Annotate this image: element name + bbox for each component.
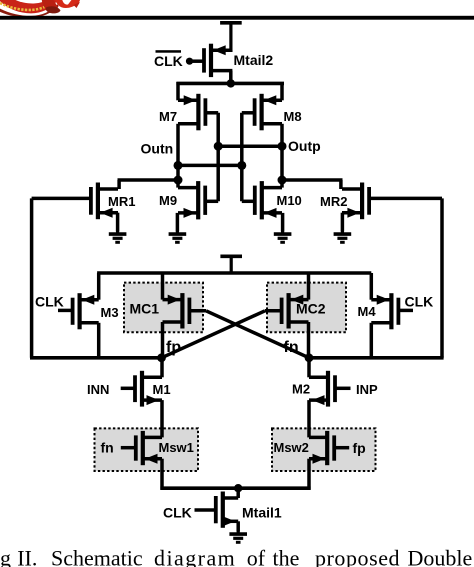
transistor M1 (NMOS input left) [121, 371, 162, 407]
transistor MR2 (NMOS reset right) [342, 183, 442, 220]
svg-text:II.: II. [17, 546, 37, 567]
overline of CLK [156, 50, 182, 53]
power VDD stub (top) [220, 23, 242, 52]
wire Msw1 source down to tail node [160, 459, 164, 490]
wire Mtail1 drain up [236, 488, 240, 498]
svg-text:INP: INP [356, 382, 378, 397]
wire Outp rail [280, 178, 342, 182]
svg-text:CLK: CLK [163, 505, 192, 521]
wire M8 source from rail [280, 82, 284, 100]
svg-text:CLK: CLK [35, 294, 64, 310]
node Outp at drain column [278, 176, 287, 185]
dashed box around MC2 [267, 283, 346, 333]
wire M7 source from rail [176, 82, 180, 100]
node upper cross right (Outp) [278, 142, 287, 151]
wire left outer (MR1 gate to fp rail) [30, 198, 34, 357]
wire MC2 source column from rail [307, 273, 311, 300]
svg-text:of: of [247, 546, 266, 567]
wire fn rail [309, 356, 444, 360]
wire Mtail1 source down to ground [236, 521, 240, 531]
wire common tail node rail [160, 486, 310, 490]
node lower cross left (Outn) [174, 161, 183, 170]
wire M1 source down to Msw1 [160, 400, 164, 437]
wire M10 drain from Outp [280, 180, 284, 188]
wire MC2 drain column to fn [307, 322, 311, 359]
svg-text:M3: M3 [101, 305, 119, 320]
svg-text:fp: fp [166, 339, 181, 356]
journal logo ribbon [0, 0, 82, 18]
svg-text:CLK: CLK [154, 53, 183, 69]
svg-text:Outp: Outp [288, 138, 321, 154]
svg-text:MC2: MC2 [296, 301, 326, 317]
svg-text:Mtail1: Mtail1 [242, 505, 282, 521]
wire MR2 drain up to Outp rail [339, 180, 343, 189]
node upper cross left [214, 142, 223, 151]
svg-text:proposed: proposed [315, 546, 400, 567]
svg-text:diagram: diagram [154, 546, 236, 567]
transistor M7 (PMOS latch left) [178, 94, 218, 131]
wire lower cross-couple (gates M8/M10 to Outn) [176, 164, 241, 168]
transistor Msw2 (NMOS switch right) [309, 431, 349, 465]
transistor M2 (NMOS input right) [309, 371, 351, 407]
node tail join [234, 484, 242, 492]
ground M9 ground [169, 232, 187, 243]
transistor MC1 (PMOS cross left) [163, 293, 207, 328]
wire M9 source down to ground [176, 213, 180, 232]
top border rule [0, 16, 474, 20]
svg-text:the: the [273, 546, 300, 567]
wire Mtail2 source to VDD [229, 50, 233, 52]
dashed box around Msw1 [95, 428, 199, 471]
ground M10 ground [274, 232, 292, 243]
svg-text:Msw2: Msw2 [274, 440, 309, 455]
svg-text:M2: M2 [292, 382, 310, 397]
wire M4 drain down to fn rail [370, 323, 374, 358]
svg-text:MR2: MR2 [320, 194, 347, 209]
node Outn at drain column [174, 176, 183, 185]
wire MC1 source column from rail [161, 273, 165, 300]
svg-text:MR1: MR1 [108, 194, 135, 209]
wire stage-1 source rail [176, 82, 284, 86]
wire M8 drain down to Outp [280, 124, 284, 182]
wire M9 drain from Outn [176, 180, 180, 188]
svg-text:g: g [0, 546, 11, 567]
wire MC2 gate diagonal to fp [162, 311, 266, 358]
wire fp down to M1 drain [160, 358, 164, 378]
wire fp rail [30, 356, 162, 360]
wire Msw2 source down to tail node [307, 459, 311, 490]
ground MR2 ground [334, 232, 352, 243]
wire M4 source to rail [370, 273, 374, 300]
transistor M3 (PMOS clk left) [58, 293, 99, 329]
wire M10 source down to ground [281, 213, 285, 232]
svg-text:M8: M8 [284, 109, 302, 124]
svg-text:INN: INN [87, 382, 109, 397]
transistor MC2 (PMOS cross right) [265, 293, 309, 328]
transistor MR1 (NMOS reset left) [32, 183, 118, 220]
dashed box around MC1 [124, 283, 203, 333]
wire MR1 source down to ground [116, 213, 120, 232]
wire Mtail2 drain to tail rail [229, 71, 233, 84]
transistor Mtail1 (NMOS tail) [195, 492, 239, 528]
svg-text:fp: fp [353, 440, 366, 456]
transistor Mtail2 (PMOS tail) [190, 44, 232, 77]
transistor M4 (PMOS clk right) [371, 293, 413, 329]
svg-text:fn: fn [101, 440, 114, 456]
wire MC1 gate diagonal to fn [206, 311, 309, 358]
node fn [305, 353, 314, 362]
wire M2 source down to Msw2 [307, 400, 311, 437]
wire M3 drain down to fp rail [97, 323, 101, 358]
wire M3 source to rail [97, 273, 101, 300]
svg-text:M1: M1 [153, 382, 171, 397]
svg-text:M4: M4 [358, 304, 377, 319]
svg-text:Msw1: Msw1 [159, 440, 194, 455]
ground MR1 ground [109, 232, 127, 243]
transistor M8 (PMOS latch right) [242, 94, 282, 131]
svg-text:Schematic: Schematic [51, 546, 143, 567]
svg-text:M7: M7 [159, 109, 177, 124]
wire MR1 drain up to Outn rail [117, 180, 121, 189]
power VDD stub (stage 2) [220, 256, 242, 273]
node: CLKbar gate dot [186, 58, 193, 65]
wire M7 drain down to Outn [176, 124, 180, 182]
svg-text:Outn: Outn [141, 141, 174, 157]
dashed box around Msw2 [272, 428, 376, 471]
transistor M9 (NMOS latch left) [178, 181, 218, 219]
svg-text:CLK: CLK [405, 294, 434, 310]
wire fn down to M2 drain [307, 358, 311, 378]
node on rail under Mtail2 [227, 79, 235, 87]
svg-text:Mtail2: Mtail2 [234, 52, 274, 68]
svg-text:M9: M9 [159, 193, 177, 208]
svg-text:fn: fn [284, 339, 299, 356]
node lower cross right [237, 161, 246, 170]
svg-text:Double: Double [408, 546, 473, 567]
wire stage-2 source rail [97, 271, 371, 275]
transistor M10 (NMOS latch right) [242, 181, 282, 219]
svg-text:MC1: MC1 [130, 301, 160, 317]
transistor Msw1 (NMOS switch left) [121, 431, 162, 465]
wire Msw2 drain column [307, 428, 311, 437]
wire right gate column (M8/M10 gates) [240, 113, 244, 202]
wire left gate column (M7/M9 gates) [216, 113, 220, 202]
wire Outn rail [118, 178, 180, 182]
wire MC1 drain column to fp [161, 322, 165, 359]
ground Mtail1 ground [229, 532, 247, 543]
wire upper cross-couple (gates M7/M9 to Outp) [218, 144, 282, 148]
wire Msw1 drain column [160, 428, 164, 437]
wire MR2 source down to ground [341, 213, 345, 232]
wire right outer (MR2 gate to fn rail) [440, 198, 444, 357]
node fp [157, 353, 166, 362]
caption text [0, 546, 472, 567]
svg-text:M10: M10 [277, 193, 302, 208]
